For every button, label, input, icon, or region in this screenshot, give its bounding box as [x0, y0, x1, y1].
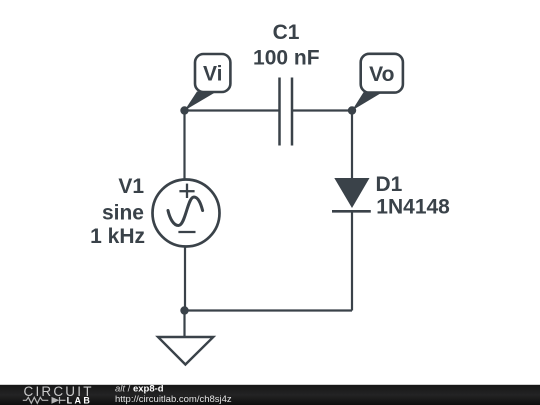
svg-text:Vo: Vo — [369, 63, 394, 86]
svg-text:http://circuitlab.com/ch8sj4z: http://circuitlab.com/ch8sj4z — [115, 394, 232, 405]
svg-text:C1: C1 — [273, 21, 300, 44]
svg-text:1N4148: 1N4148 — [376, 196, 450, 219]
svg-text:V1: V1 — [118, 175, 144, 198]
svg-text:sine: sine — [102, 202, 144, 225]
svg-text:D1: D1 — [376, 173, 403, 196]
svg-text:1 kHz: 1 kHz — [90, 225, 145, 248]
svg-text:LAB: LAB — [67, 396, 93, 405]
svg-text:100 nF: 100 nF — [253, 47, 320, 70]
svg-text:Vi: Vi — [203, 63, 222, 86]
